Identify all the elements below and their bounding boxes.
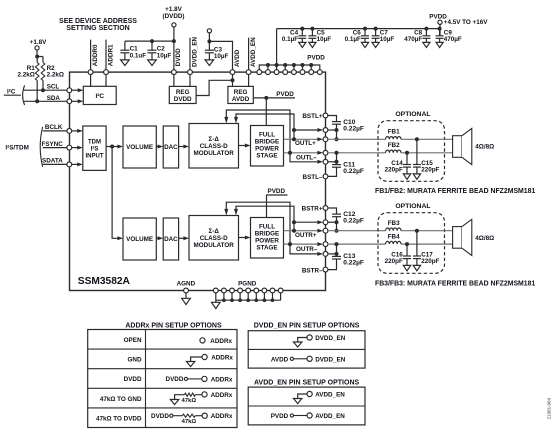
svg-text:BSTL–: BSTL– [303, 174, 323, 181]
capacitor C15 220pF [413, 139, 440, 179]
svg-text:BRIDGE: BRIDGE [255, 231, 280, 238]
figure number 21981-064 [547, 397, 552, 419]
svg-text:0.1µF: 0.1µF [282, 36, 298, 43]
label ADDR0 [92, 44, 99, 66]
supply terminal +1.8V DVDD [162, 6, 184, 27]
svg-text:AGND: AGND [177, 280, 196, 287]
wire feedback outer R [224, 202, 323, 256]
dashed box optional L [378, 121, 445, 182]
svg-text:VOLUME: VOLUME [126, 144, 153, 151]
note SEE DEVICE ADDRESS SETTING SECTION [59, 18, 137, 32]
svg-text:PGND: PGND [238, 280, 257, 287]
junction fb R- [288, 242, 292, 246]
wire VOLUME-DAC R [156, 236, 163, 240]
capacitor C11 0.22uF [332, 161, 364, 174]
label ADDR1 [107, 44, 114, 66]
svg-text:Σ-Δ: Σ-Δ [208, 136, 219, 143]
svg-text:SDATA: SDATA [42, 158, 63, 165]
wire +1.8V stem [37, 50, 43, 57]
speaker R [453, 219, 495, 255]
svg-text:OPTIONAL: OPTIONAL [395, 203, 430, 210]
svg-text:POWER: POWER [255, 238, 279, 245]
block TDM I2S INPUT [83, 126, 106, 170]
table row 47k TO GND [100, 392, 233, 405]
terminal C3 top [207, 29, 211, 33]
wire OUTR- out [284, 242, 324, 246]
block SD CLASS-D MODULATOR L [189, 124, 239, 169]
pin SDA [67, 99, 72, 104]
capacitor C9 470&#181;F [436, 27, 462, 48]
capacitor C14 220pF [385, 153, 411, 180]
junction C17 tap [415, 229, 419, 233]
pin AGND [177, 280, 196, 293]
label AVDD_EN [250, 37, 257, 67]
svg-text:CLASS-D: CLASS-D [200, 235, 228, 242]
label OUTR- [296, 246, 318, 253]
svg-text:VOLUME: VOLUME [126, 236, 153, 243]
svg-text:REG: REG [176, 89, 190, 96]
wire OUTL+ out [284, 137, 324, 141]
junction OUTL+ tie b [335, 137, 339, 141]
capacitor C12 0.22uF [332, 211, 364, 224]
svg-text:FB1: FB1 [388, 128, 400, 135]
svg-text:DAC: DAC [164, 144, 178, 151]
bracket I2C [23, 85, 25, 105]
junction C14 tap [405, 151, 409, 155]
svg-text:220pF: 220pF [385, 167, 403, 174]
junction PGND dots [222, 298, 274, 302]
svg-text:OUTL–: OUTL– [296, 155, 317, 162]
svg-text:TDM: TDM [88, 140, 101, 146]
node I2C bus label [4, 89, 21, 96]
label SSM3582A [78, 276, 131, 287]
svg-text:I²C: I²C [7, 89, 16, 96]
svg-text:PVDD: PVDD [268, 188, 286, 195]
svg-text:FSYNC: FSYNC [42, 141, 64, 148]
svg-text:OUTR+: OUTR+ [295, 232, 317, 239]
label DVDD_EN [191, 36, 198, 67]
wire FB4 to speaker [401, 243, 453, 245]
svg-text:CLASS-D: CLASS-D [200, 143, 228, 150]
label BSTL- [303, 174, 323, 181]
svg-text:OPTIONAL: OPTIONAL [395, 111, 430, 118]
label OUTL- [296, 155, 317, 162]
table row OPEN [124, 337, 233, 345]
svg-text:+1.8V: +1.8V [165, 6, 182, 13]
wire MOD-FB L [239, 144, 251, 148]
svg-text:SSM3582A: SSM3582A [78, 276, 131, 287]
wire C1 C2 rail [125, 40, 174, 42]
pin OUTL+ a [323, 128, 328, 133]
svg-text:470µF: 470µF [444, 36, 462, 43]
svg-text:10µF: 10µF [157, 52, 172, 59]
svg-text:ADDRx: ADDRx [211, 376, 233, 383]
wire SCL to I2C block [72, 88, 84, 92]
pin OUTR- a [323, 242, 328, 247]
svg-text:Σ-Δ: Σ-Δ [208, 228, 219, 235]
capacitor C10 0.22uF [332, 119, 364, 132]
label AVDD [234, 49, 241, 67]
capacitor C8 470&#181;F [404, 27, 430, 48]
table DVDD_EN frame [248, 331, 365, 368]
wire SDA [24, 95, 67, 102]
svg-text:DVDD: DVDD [124, 376, 142, 383]
wire PVDD pin rail [259, 55, 325, 73]
wire ADDR0 [90, 40, 92, 87]
svg-text:21981-064: 21981-064 [547, 397, 552, 419]
capacitor C13 0.22uF [332, 253, 364, 266]
note FB1/FB2 murata [375, 188, 535, 195]
svg-text:BSTR+: BSTR+ [302, 205, 323, 212]
wire OUTL+ external [328, 138, 386, 140]
block FULL BRIDGE POWER STAGE L [251, 126, 284, 167]
pin OUTR+ a [323, 220, 328, 225]
wire BSTR- stub [328, 259, 337, 270]
svg-text:ADDRx: ADDRx [210, 338, 232, 345]
label DVDD [175, 48, 182, 66]
capacitor C2 10uF [148, 39, 172, 65]
svg-text:2.2kΩ: 2.2kΩ [47, 72, 64, 79]
svg-text:PVDD: PVDD [307, 55, 325, 62]
junction TDM out split [110, 145, 114, 149]
pin OUTR- b [323, 252, 328, 257]
junction OUTL+ tie a [335, 128, 339, 132]
junction C16 tap [405, 242, 409, 246]
block VOLUME L [123, 126, 156, 168]
junction OUTL- tie a [335, 151, 339, 155]
junction AVDD regdvdd [231, 78, 235, 82]
pin DVDD_EN [188, 70, 193, 75]
ground PGND [212, 300, 221, 308]
wire FSYNC to TDM block [72, 146, 83, 150]
dashed box optional R [378, 213, 445, 274]
table AVDD_EN title [254, 379, 359, 386]
IC U1 SSM3582A body [70, 72, 326, 290]
wire OUTR+ tie [328, 222, 337, 231]
svg-text:FULL: FULL [259, 224, 275, 231]
wire feedback inner L [234, 114, 294, 139]
junction OUTL- tie b [335, 160, 339, 164]
capacitor C3 10uF [205, 47, 229, 66]
capacitor C6 0.1&#181;F [345, 27, 369, 48]
wire SDA to I2C block [72, 99, 84, 103]
svg-text:DVDD: DVDD [174, 96, 192, 103]
junction R2-SCL [41, 88, 45, 92]
svg-text:0.1uF: 0.1uF [130, 52, 147, 59]
wire FB1 to speaker [401, 138, 453, 140]
svg-text:220pF: 220pF [385, 258, 403, 265]
svg-text:4Ω/8Ω: 4Ω/8Ω [475, 235, 494, 242]
label BSTR+ [302, 205, 323, 212]
capacitor C5 10&#181;F [308, 27, 331, 48]
svg-text:OUTR–: OUTR– [296, 246, 318, 253]
label OPTIONAL R [395, 203, 430, 210]
node PVDD R [267, 188, 288, 217]
capacitor C7 10&#181;F [372, 27, 395, 48]
node I2S/TDM label [5, 145, 28, 152]
pin DVDD [172, 70, 177, 75]
wire ADDR1 [105, 40, 107, 87]
pin SCL [67, 88, 72, 93]
svg-text:DVDD_EN: DVDD_EN [315, 335, 346, 342]
svg-text:POWER: POWER [255, 146, 279, 153]
ground AGND [182, 293, 191, 305]
table row GND AVDD_EN [294, 391, 346, 403]
svg-text:MODULATOR: MODULATOR [194, 150, 235, 157]
svg-text:DVDD: DVDD [175, 48, 182, 66]
svg-text:220pF: 220pF [421, 258, 439, 265]
block DAC L [163, 126, 178, 168]
svg-text:DVDD_EN: DVDD_EN [191, 36, 198, 67]
svg-text:C2: C2 [157, 45, 166, 52]
pin SDATA [67, 162, 72, 167]
wire feedback outer L [224, 110, 323, 164]
svg-text:0.22µF: 0.22µF [343, 217, 364, 224]
wire OUTL- external [328, 152, 386, 154]
table row AVDD DVDD_EN [271, 356, 346, 363]
pin OUTL+ b [323, 137, 328, 142]
pins PGND x9 [213, 280, 283, 293]
svg-text:0.22µF: 0.22µF [343, 126, 364, 133]
svg-text:FB3: FB3 [388, 220, 400, 227]
svg-text:BSTL+: BSTL+ [302, 113, 322, 120]
wire BCLK [43, 124, 67, 131]
wire OUTR+ external [328, 230, 386, 232]
table row 47k TO DVDD [96, 413, 233, 425]
wire BSTR+ stub [328, 208, 337, 214]
supply terminal PVDD +4.5V to +16V [429, 14, 488, 27]
svg-text:BCLK: BCLK [45, 124, 63, 131]
svg-text:10µF: 10µF [317, 36, 332, 43]
svg-text:AVDD_EN: AVDD_EN [315, 391, 345, 398]
junction fb R+ [292, 229, 296, 233]
junction R1-SDA [35, 99, 39, 103]
svg-text:ADDRx PIN SETUP OPTIONS: ADDRx PIN SETUP OPTIONS [125, 322, 222, 329]
bracket I2S/TDM [40, 127, 42, 167]
wire PVDD cap rail [277, 24, 440, 35]
pin AVDD_EN [246, 70, 251, 75]
junction OUTR- tie a [335, 242, 339, 246]
table row PVDD AVDD_EN [271, 413, 346, 420]
wire OUTR- external [328, 243, 386, 245]
junction OUTR+ tie a [335, 220, 339, 224]
wire OUTL+ tie [328, 130, 337, 139]
label BSTL+ [302, 113, 322, 120]
wire PVDD rail riser [276, 29, 278, 65]
svg-text:REG: REG [234, 89, 248, 96]
svg-text:ADDR1: ADDR1 [107, 44, 114, 66]
block REG AVDD [228, 86, 253, 103]
wire SDATA [42, 158, 67, 165]
wire DAC-MOD L [179, 145, 189, 149]
ferrite bead FB3 [386, 220, 401, 231]
speaker L [453, 128, 495, 164]
svg-text:MODULATOR: MODULATOR [194, 242, 235, 249]
svg-text:DVDD_EN PIN SETUP OPTIONS: DVDD_EN PIN SETUP OPTIONS [254, 323, 360, 330]
svg-text:I²C: I²C [95, 93, 104, 100]
svg-text:47kΩ TO DVDD: 47kΩ TO DVDD [96, 415, 142, 422]
svg-text:PVDD: PVDD [271, 413, 289, 420]
svg-text:AVDD_EN PIN SETUP OPTIONS: AVDD_EN PIN SETUP OPTIONS [254, 379, 359, 386]
junction OUTR+ tie b [335, 229, 339, 233]
junction PVDD feed L [264, 96, 268, 100]
svg-text:+1.8V: +1.8V [30, 39, 47, 46]
svg-text:FULL: FULL [259, 132, 275, 139]
wire TDM to R volume [112, 147, 123, 241]
ferrite bead FB4 [386, 233, 401, 244]
svg-text:0.1µF: 0.1µF [345, 36, 361, 43]
junction sense L+ [292, 128, 296, 132]
wire BSTL+ stub [328, 116, 337, 122]
ferrite bead FB2 [386, 142, 401, 153]
pin ADDR0 [88, 70, 93, 75]
wire AVDD_EN [248, 38, 250, 89]
svg-text:STAGE: STAGE [256, 245, 277, 252]
svg-text:C1: C1 [130, 45, 139, 52]
svg-text:OPEN: OPEN [124, 337, 142, 344]
svg-text:47kΩ TO GND: 47kΩ TO GND [100, 396, 142, 403]
svg-text:I²S: I²S [91, 146, 99, 153]
block DAC R [163, 218, 178, 260]
table ADDRx title [125, 322, 222, 329]
wire BCLK to TDM block [72, 129, 83, 133]
wire DAC-MOD R [179, 236, 189, 240]
pin OUTL- b [323, 159, 328, 164]
svg-text:AVDD: AVDD [271, 356, 289, 363]
svg-text:FB3/FB3: MURATA FERRITE BEAD N: FB3/FB3: MURATA FERRITE BEAD NFZ2MSM181 [375, 280, 535, 287]
wire MOD-FB R [239, 236, 251, 240]
svg-text:FB2: FB2 [388, 142, 400, 149]
svg-text:ADDRx: ADDRx [211, 354, 233, 361]
pin BSTR+ [323, 206, 328, 211]
block VOLUME R [123, 218, 156, 260]
pin BSTL+ [323, 113, 328, 118]
capacitor C17 220pF [413, 231, 440, 271]
junction C15 tap [415, 137, 419, 141]
wire feedback inner R [234, 206, 294, 231]
resistor R1 2.2k [17, 57, 39, 102]
svg-text:I²S/TDM: I²S/TDM [5, 145, 28, 152]
wire PVDD feed L [265, 98, 267, 126]
svg-text:DVDD: DVDD [166, 376, 184, 383]
svg-text:OUTL+: OUTL+ [295, 140, 316, 147]
capacitor C1 0.1uF [120, 41, 146, 65]
wire FB3 to speaker [401, 230, 453, 232]
wire DVDD [173, 27, 175, 88]
svg-text:470µF: 470µF [404, 36, 422, 43]
svg-text:DVDD_EN: DVDD_EN [315, 356, 346, 363]
svg-text:PVDD: PVDD [276, 91, 294, 98]
capacitor C4 0.1&#181;F [282, 27, 306, 48]
table row DVDD [124, 376, 233, 383]
svg-text:(DVDD): (DVDD) [162, 13, 184, 20]
svg-text:AVDD_EN: AVDD_EN [315, 413, 345, 420]
block I2C [83, 86, 116, 104]
svg-text:GND: GND [128, 357, 142, 364]
junction fb L+ [292, 137, 296, 141]
svg-text:SCL: SCL [47, 84, 60, 91]
pin ADDR1 [104, 70, 109, 75]
resistor R2 2.2k [41, 57, 64, 91]
pin BSTL- [323, 174, 328, 179]
svg-text:0.22µF: 0.22µF [343, 260, 364, 267]
pin BCLK [67, 129, 72, 134]
wire FSYNC [42, 141, 68, 148]
pin OUTL- a [323, 150, 328, 155]
svg-text:ADDRx: ADDRx [211, 413, 233, 420]
svg-text:DAC: DAC [164, 236, 178, 243]
block SD CLASS-D MODULATOR R [189, 216, 239, 261]
pin FSYNC [67, 145, 72, 150]
pin OUTR+ b [323, 228, 328, 233]
svg-text:BRIDGE: BRIDGE [255, 139, 280, 146]
wire OUTR+ out [284, 229, 324, 233]
label BSTR- [302, 267, 323, 274]
capacitor C16 220pF [385, 244, 411, 271]
svg-text:STAGE: STAGE [256, 153, 277, 160]
wire BSTL- stub [328, 167, 337, 176]
wire REG DVDD out [196, 80, 232, 95]
svg-text:AVDD: AVDD [234, 49, 241, 67]
junction fb L- [288, 151, 292, 155]
svg-text:FB4: FB4 [388, 233, 400, 240]
svg-text:47kΩ: 47kΩ [182, 398, 197, 404]
svg-text:DVDD: DVDD [151, 413, 169, 420]
wire OUTR+ sense [294, 220, 323, 224]
svg-text:AVDD: AVDD [232, 96, 250, 103]
table row GND DVDD_EN [294, 335, 346, 347]
table AVDD_EN frame [248, 387, 365, 425]
pin BSTR- [323, 267, 328, 272]
junction +1.8V split [35, 55, 39, 59]
wire VOLUME-DAC L [156, 145, 163, 149]
junction PVDD rail dots [266, 63, 313, 67]
block REG DVDD [169, 86, 196, 103]
wire OUTL- out [284, 151, 324, 155]
wire TDM out [106, 145, 123, 149]
pin AVDD [230, 70, 235, 75]
svg-text:10µF: 10µF [214, 53, 229, 60]
wire REG AVDD to PVDD [253, 91, 295, 98]
block FULL BRIDGE POWER STAGE R [251, 218, 284, 259]
svg-text:INPUT: INPUT [86, 154, 104, 160]
wire C3 stem [208, 33, 210, 50]
wire FB2 to speaker [401, 152, 453, 154]
svg-text:FB1/FB2: MURATA FERRITE BEAD N: FB1/FB2: MURATA FERRITE BEAD NFZ2MSM181 [375, 188, 535, 195]
table ADDRx frame [88, 330, 237, 428]
svg-text:2.2kΩ: 2.2kΩ [17, 72, 34, 79]
svg-text:SDA: SDA [47, 95, 61, 102]
svg-text:47kΩ: 47kΩ [182, 419, 197, 425]
wire PGND rail [216, 293, 281, 300]
svg-text:10µF: 10µF [380, 36, 395, 43]
pins PVDD x8 [257, 70, 322, 75]
svg-text:220pF: 220pF [421, 167, 439, 174]
wire SCL [24, 84, 67, 91]
wire OUTL- tie [328, 153, 337, 162]
wire C3 to AVDD [209, 41, 232, 89]
svg-text:+4.5V TO +16V: +4.5V TO +16V [444, 19, 488, 26]
label OUTL+ [295, 140, 316, 147]
label OUTR+ [295, 232, 317, 239]
table row GND [128, 354, 234, 366]
table DVDD_EN title [254, 323, 360, 330]
junction C3 [207, 39, 211, 43]
wire DVDD_EN [189, 38, 191, 88]
supply terminal +1.8V [30, 39, 47, 50]
svg-text:BSTR–: BSTR– [302, 267, 323, 274]
wire SDATA to TDM block [72, 162, 83, 166]
